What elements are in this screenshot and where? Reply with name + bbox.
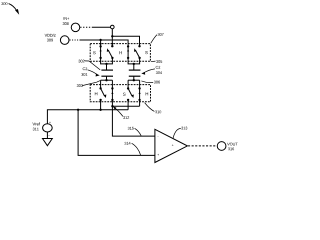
wire: IN+ drop to feed junction	[111, 29, 113, 44]
wire: col A drop into box	[100, 40, 102, 44]
voltage source Vref 311	[32, 122, 52, 136]
wire: dashed from VDD/2 to col A junction	[70, 39, 80, 41]
label 315 + leader	[128, 127, 141, 136]
label H	[119, 51, 121, 54]
wire: IN+ feed to right column D	[112, 36, 139, 43]
label 312 + leader arrow	[113, 106, 129, 119]
node: open junction circle	[111, 25, 115, 29]
label 310 + leader	[145, 103, 162, 114]
wire: N1 down and to op-amp inverting input	[112, 106, 154, 136]
switch S7 (open, col C bottom)	[127, 87, 134, 110]
switch box 310 (bottom)	[90, 85, 150, 102]
wire: Vref branch to op-amp non-inverting input	[78, 110, 155, 156]
op-amp 313	[155, 129, 188, 162]
figure number 300	[1, 2, 19, 15]
ground	[43, 132, 53, 146]
switch S3 (closed, col C)	[127, 44, 129, 60]
wire: left top bracket (cols A,B merge)	[101, 58, 113, 70]
terminal VOUT 316	[217, 142, 237, 151]
node N1 junction dot	[111, 105, 113, 107]
switch S4 (open, col D)	[134, 44, 141, 60]
capacitor C2 304 (right branch)	[129, 70, 141, 80]
wire: Vref line	[47, 110, 128, 124]
wire: right top bracket (cols C,D merge)	[128, 58, 140, 70]
switch S2 (open, col B)	[107, 44, 114, 60]
switch S6 (closed, col B bottom)	[111, 87, 113, 106]
wire: N1 line to col D	[112, 105, 139, 107]
label 313 + leader	[173, 127, 187, 139]
terminal IN+ 308	[63, 17, 80, 32]
node: edge junction dots	[100, 43, 102, 45]
capacitor C2 301 (left branch)	[101, 70, 113, 80]
switch S5 (open, col A bottom)	[99, 87, 106, 110]
switch S1 (closed, col A)	[99, 44, 101, 60]
wire: dashed from IN+ to junction circle	[80, 26, 92, 28]
label 303 + leader	[77, 81, 100, 87]
node junction dot (to op-amp +)	[77, 109, 79, 111]
label C2 301 + arrow	[81, 67, 99, 76]
node junction dot	[99, 39, 101, 41]
label 305 + leader	[151, 60, 162, 63]
node junction dot (col A)	[99, 109, 101, 111]
label S	[123, 93, 126, 96]
wire: VDD/2 feed to right column C	[101, 40, 129, 44]
wire: left bottom bracket (split to cols)	[101, 79, 113, 88]
terminal VDD/2 309	[45, 34, 69, 45]
label H	[146, 92, 148, 95]
label 306 + leader	[141, 81, 160, 84]
label H	[95, 92, 97, 95]
wire: dashed output	[188, 145, 217, 147]
node junction dot	[111, 35, 113, 37]
wire: right bottom bracket	[128, 79, 140, 88]
label C2 304 + arrow	[141, 66, 162, 75]
label 302 + leader	[78, 60, 100, 70]
label S	[93, 51, 96, 54]
label S	[145, 51, 148, 54]
switch S8 (closed, col D bottom)	[138, 87, 140, 106]
label 314 + leader	[124, 142, 140, 155]
label 307	[151, 33, 164, 43]
switch box 307 (top)	[90, 44, 150, 62]
